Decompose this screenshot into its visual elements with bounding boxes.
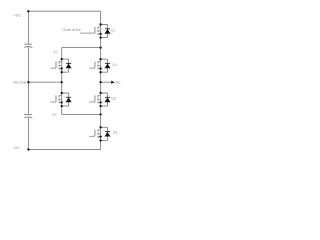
svg-text:+: + [24, 111, 26, 115]
svg-text:Q6: Q6 [113, 131, 118, 135]
svg-text:Q3: Q3 [53, 50, 58, 54]
svg-text:Q1: Q1 [111, 29, 116, 33]
svg-text:+DC: +DC [13, 13, 21, 18]
svg-text:Q5: Q5 [111, 97, 116, 101]
svg-text:-DC: -DC [13, 145, 20, 150]
svg-text:Q2: Q2 [52, 113, 57, 117]
svg-text:Gate drive: Gate drive [62, 27, 81, 32]
svg-text:Neutral: Neutral [13, 80, 26, 85]
svg-text:AC: AC [115, 80, 120, 84]
svg-text:+: + [24, 41, 26, 45]
svg-text:Q4: Q4 [112, 63, 117, 67]
